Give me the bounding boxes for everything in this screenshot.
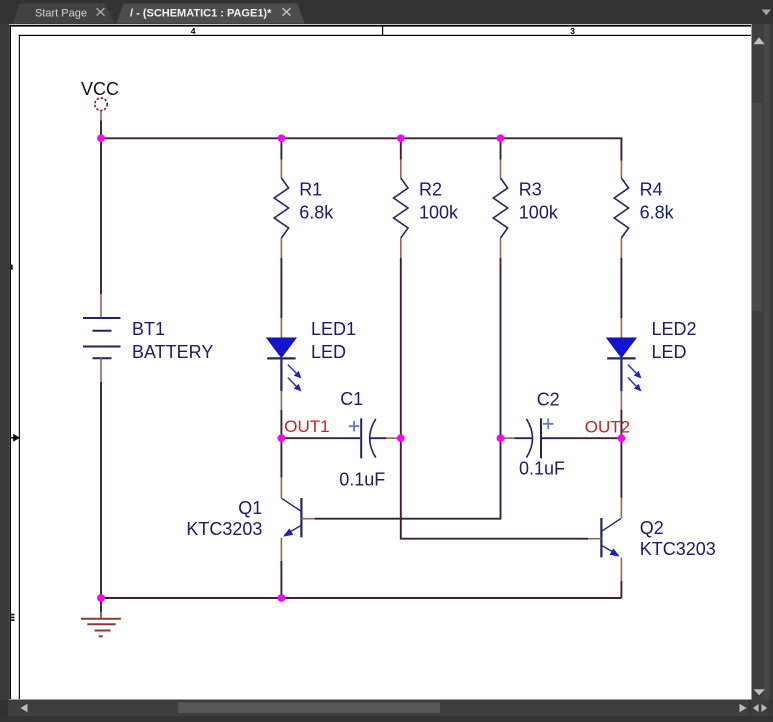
- wire R3 to node D: [500, 258, 502, 438]
- LED2: [607, 318, 697, 410]
- svg-text:3: 3: [570, 26, 575, 36]
- left zone divider marker: [11, 434, 20, 442]
- svg-text:C1: C1: [340, 389, 363, 409]
- power symbol VCC: [81, 79, 119, 121]
- wire LED2 to OUT2 node: [620, 410, 622, 438]
- junction R3 top: [497, 134, 505, 142]
- svg-text:KTC3203: KTC3203: [186, 519, 262, 539]
- vertical scrollbar: [752, 24, 773, 700]
- svg-text:4: 4: [191, 26, 196, 36]
- svg-text:6.8k: 6.8k: [640, 203, 675, 223]
- LED1: [267, 318, 356, 410]
- svg-text:R2: R2: [419, 180, 442, 200]
- svg-text:100k: 100k: [519, 203, 559, 223]
- resistor R1: [274, 160, 334, 259]
- resistor R4: [614, 161, 674, 259]
- svg-text:R1: R1: [299, 180, 322, 200]
- capacitor C2: [501, 390, 566, 479]
- junction ground: [97, 594, 105, 602]
- svg-text:OUT2: OUT2: [585, 418, 630, 437]
- wire OUT1 rail: [281, 437, 345, 439]
- svg-text:Q1: Q1: [238, 498, 262, 518]
- junction Q1 emitter: [278, 594, 286, 602]
- svg-text:LED2: LED2: [652, 319, 697, 339]
- wire OUT1 node to Q1 collector: [280, 438, 282, 477]
- wire bus to battery: [100, 138, 102, 294]
- tab list dropdown arrow: [762, 10, 772, 16]
- svg-text:Start Page: Start Page: [35, 7, 87, 19]
- svg-text:LED1: LED1: [311, 319, 356, 339]
- ground: [81, 598, 121, 636]
- svg-text:R4: R4: [640, 180, 663, 200]
- wire Q1 emitter to bottom bus: [280, 561, 282, 598]
- svg-text:VCC: VCC: [81, 79, 119, 99]
- svg-text:Q2: Q2: [640, 518, 664, 538]
- tab SCHEMATIC1 PAGE1 (active): [116, 4, 304, 24]
- capacitor C1: [339, 389, 401, 490]
- junction VCC bus: [97, 134, 105, 142]
- svg-text:BATTERY: BATTERY: [132, 342, 213, 362]
- svg-text:0.1uF: 0.1uF: [339, 470, 385, 490]
- svg-text:/ - (SCHEMATIC1 : PAGE1)*: / - (SCHEMATIC1 : PAGE1)*: [130, 7, 272, 19]
- svg-text:R3: R3: [519, 180, 542, 200]
- wire C2 to OUT2 node: [557, 437, 621, 439]
- svg-text:0.1uF: 0.1uF: [519, 459, 565, 479]
- junction R1 top: [278, 134, 286, 142]
- wire R2 to node C: [400, 258, 402, 438]
- left border tick mark lower: [11, 614, 15, 621]
- zone divider tick top: [382, 27, 383, 35]
- horizontal scrollbar: [0, 700, 773, 722]
- wire Q1 base to node D: [315, 438, 501, 519]
- svg-text:LED: LED: [652, 342, 687, 362]
- svg-text:6.8k: 6.8k: [299, 203, 334, 223]
- sheet inner border top: [19, 35, 751, 36]
- left border tick mark upper: [9, 265, 12, 270]
- junction node D: [497, 434, 505, 442]
- wire Q2 base to node C: [401, 438, 589, 539]
- wire VCC to top bus: [100, 121, 102, 139]
- junction node OUT1: [278, 434, 286, 442]
- svg-text:LED: LED: [311, 342, 346, 362]
- sheet outer border left: [9, 25, 11, 699]
- wire bottom bus: [101, 597, 621, 599]
- wire bus stub to R1: [280, 138, 282, 159]
- battery BT1: [83, 294, 213, 382]
- wire battery to ground bus: [100, 382, 102, 598]
- svg-text:BT1: BT1: [132, 319, 165, 339]
- resistor R2: [394, 160, 459, 259]
- svg-text:100k: 100k: [419, 203, 459, 223]
- wire bus stub to R3: [500, 138, 502, 159]
- svg-text:C2: C2: [537, 390, 560, 410]
- junction node OUT2: [618, 434, 626, 442]
- wire top bus: [101, 138, 621, 160]
- svg-text:OUT1: OUT1: [284, 417, 329, 436]
- junction node C: [397, 434, 405, 442]
- wire Q2 emitter to bottom bus: [620, 581, 622, 598]
- transistor Q2: [588, 498, 715, 582]
- sheet inner border left: [19, 35, 20, 699]
- tab Start Page: [13, 4, 114, 24]
- transistor Q1: [186, 478, 314, 562]
- bottom window edge: [0, 716, 773, 722]
- resistor R3: [493, 160, 559, 259]
- wire bus stub to R2: [400, 138, 402, 159]
- svg-text:KTC3203: KTC3203: [640, 539, 716, 559]
- wire R4 to LED2: [620, 258, 622, 318]
- junction R2 top: [397, 134, 405, 142]
- wire R1 to LED1: [280, 258, 282, 318]
- wire LED1 to OUT1 node: [280, 410, 282, 438]
- wire OUT2 node to Q2 collector: [620, 438, 622, 497]
- sheet outer border top: [9, 25, 751, 27]
